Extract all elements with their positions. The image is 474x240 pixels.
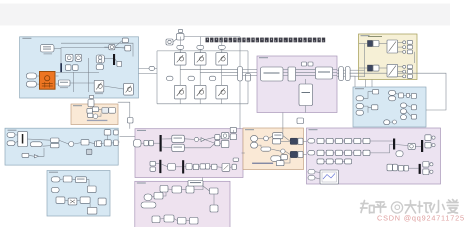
svg-text:CSDN @qq924711725: CSDN @qq924711725 xyxy=(377,214,465,223)
